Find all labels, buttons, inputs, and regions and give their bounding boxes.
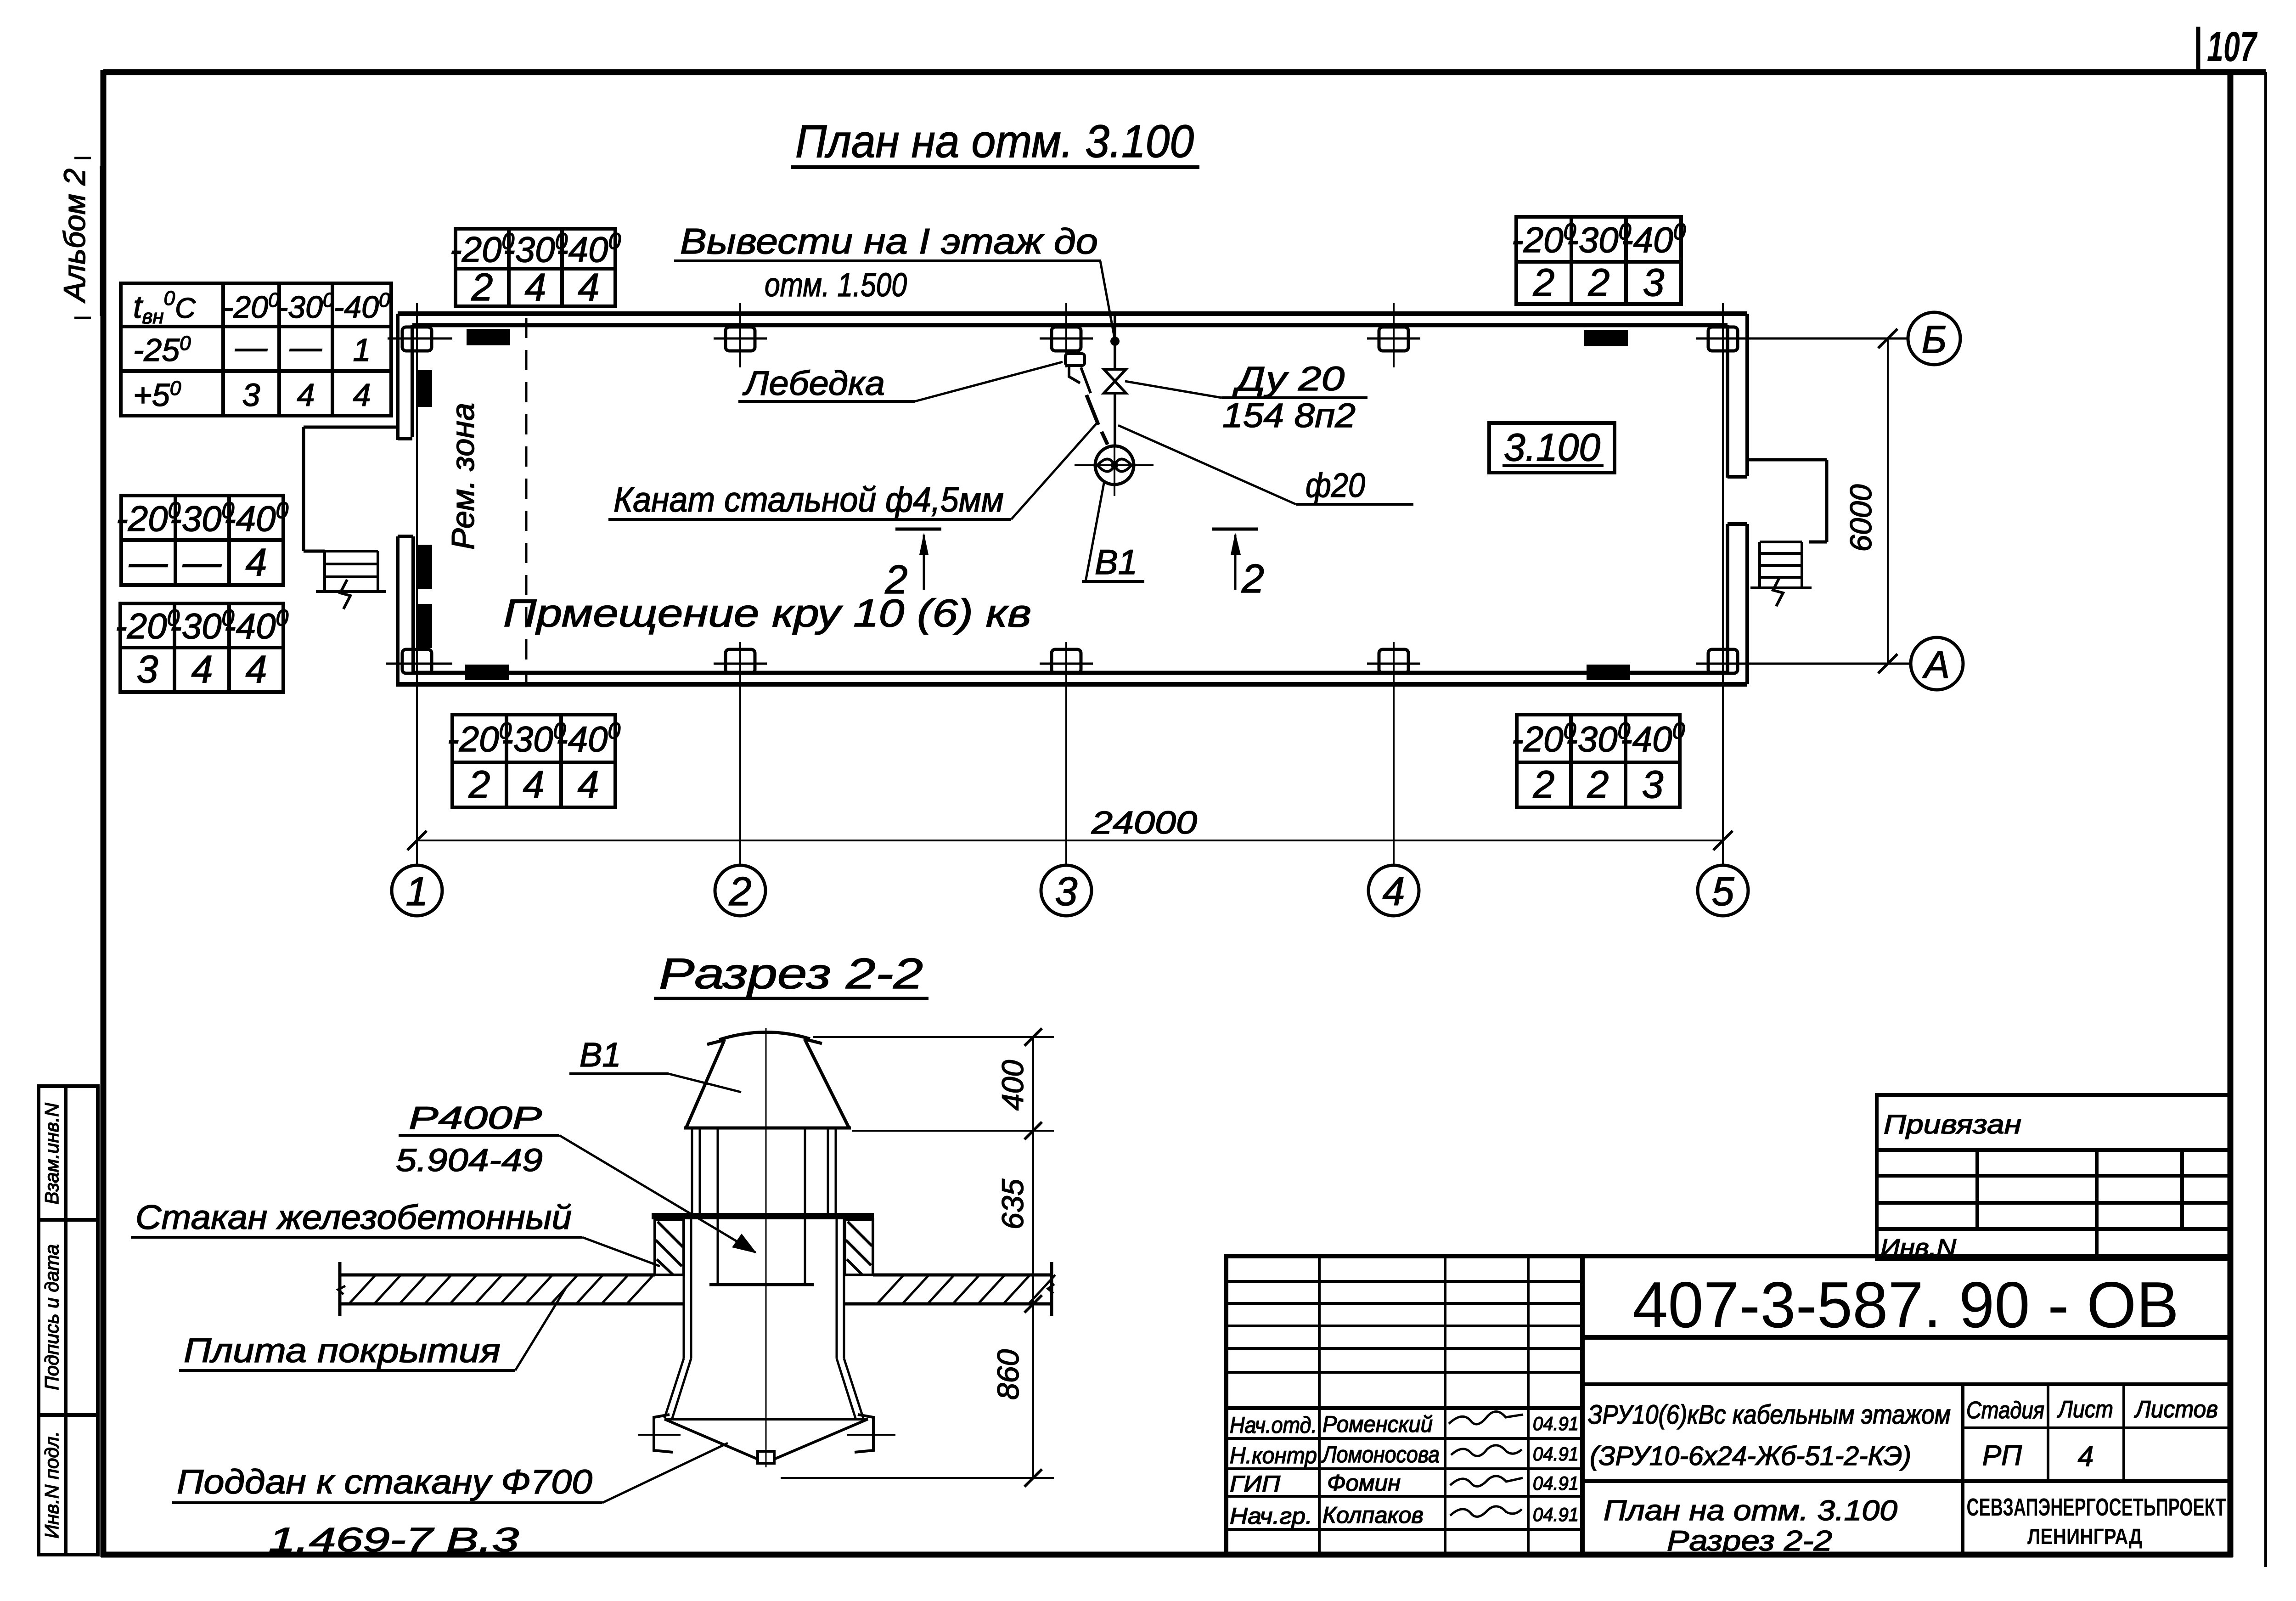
svg-text:(ЗРУ10-6х24-Жб-51-2-КЭ): (ЗРУ10-6х24-Жб-51-2-КЭ) <box>1590 1441 1911 1471</box>
svg-text:Фомин: Фомин <box>1327 1470 1401 1496</box>
svg-text:Ду 20: Ду 20 <box>1232 360 1345 398</box>
svg-text:2: 2 <box>1533 763 1555 806</box>
svg-text:—: — <box>289 329 322 365</box>
svg-text:отм. 1.500: отм. 1.500 <box>765 267 907 304</box>
svg-text:2: 2 <box>1241 556 1264 601</box>
svg-text:4: 4 <box>523 763 545 806</box>
svg-text:04.91: 04.91 <box>1533 1472 1579 1494</box>
signatures (scribbles) <box>1449 1411 1523 1516</box>
left margin strip boxes <box>39 1086 98 1555</box>
slab hatch <box>349 1275 1055 1304</box>
svg-text:Р400Р: Р400Р <box>409 1100 542 1136</box>
svg-text:4: 4 <box>246 541 267 584</box>
plan: right end wall lower part <box>1728 524 1747 684</box>
svg-text:ЛЕНИНГРАД: ЛЕНИНГРАД <box>2027 1525 2142 1549</box>
svg-text:Инв.N подл.: Инв.N подл. <box>41 1431 62 1539</box>
leader to pipe <box>1118 425 1296 504</box>
plan: top wall <box>398 314 1747 325</box>
svg-text:2: 2 <box>1533 261 1555 304</box>
axis bubble 4 <box>1368 865 1419 916</box>
svg-text:ф20: ф20 <box>1306 466 1365 504</box>
table mid-left (-20/-30/-40 : - - 4) <box>121 496 283 585</box>
axis bubble 2 <box>715 865 765 916</box>
leader to cable <box>1011 423 1097 519</box>
svg-text:3: 3 <box>1642 763 1664 806</box>
blank band line <box>1582 1382 2230 1386</box>
svg-text:Альбом 2: Альбом 2 <box>57 169 91 304</box>
svg-text:План на отм. 3.100: План на отм. 3.100 <box>1604 1495 1897 1527</box>
svg-text:B1: B1 <box>1095 543 1137 582</box>
svg-text:Колпаков: Колпаков <box>1322 1502 1424 1528</box>
table bottom-left (-20/-30/-40 : 2 4 4) <box>452 715 615 807</box>
axis bubble 3 <box>1041 865 1092 916</box>
plan: bottom wall <box>396 673 1747 684</box>
svg-text:3.100: 3.100 <box>1504 426 1600 469</box>
section: concrete socket right (hatched) <box>845 1219 873 1275</box>
section: drain pan (Поддон) <box>664 1419 868 1463</box>
svg-text:План на отм. 3.100: План на отм. 3.100 <box>795 116 1194 167</box>
ventilation grille bottom-right (filled) <box>1587 665 1630 680</box>
winch (Лебедка) symbol <box>1065 354 1091 393</box>
ventilation grille left wall middle (filled) <box>417 545 432 589</box>
svg-text:4: 4 <box>191 648 213 691</box>
svg-text:Вывести на I этаж до: Вывести на I этаж до <box>680 221 1098 261</box>
column axis 4/Б <box>1393 303 1395 367</box>
ventilation grille top-right (filled) <box>1584 330 1628 346</box>
axis 5 line <box>1722 685 1724 865</box>
svg-text:860: 860 <box>991 1349 1025 1400</box>
annex box "Привязан" <box>1877 1095 2230 1259</box>
pipe below valve <box>1114 393 1116 446</box>
svg-text:Поддан к стакану Ф700: Поддан к стакану Ф700 <box>177 1463 592 1501</box>
svg-text:4: 4 <box>578 763 599 806</box>
section: roof slab (hatched band) <box>340 1262 1052 1316</box>
dimension line 6000 <box>1887 338 1889 664</box>
axis 3 line <box>1065 685 1067 865</box>
svg-text:—: — <box>235 329 268 365</box>
svg-text:3: 3 <box>242 377 260 413</box>
svg-text:Нач.отд.: Нач.отд. <box>1230 1412 1317 1438</box>
column axis 3/Б <box>1065 303 1067 367</box>
svg-text:1: 1 <box>353 332 371 368</box>
section cut mark 2 (right) <box>1212 529 1258 590</box>
svg-text:Нач.гр.: Нач.гр. <box>1230 1503 1312 1529</box>
svg-text:Прмещение кру 10 (6) кв: Прмещение кру 10 (6) кв <box>503 592 1031 635</box>
axis bubble 1 <box>392 865 442 916</box>
svg-text:2: 2 <box>1588 261 1610 304</box>
table top-right (-20/-30/-40 : 2 2 3) <box>1516 217 1681 304</box>
big document number cell <box>1582 1335 2230 1340</box>
svg-text:Роменский: Роменский <box>1322 1411 1433 1437</box>
svg-text:Рем. зона: Рем. зона <box>445 403 481 550</box>
column axis 1/Б <box>416 303 418 367</box>
svg-text:4: 4 <box>353 377 371 413</box>
svg-text:04.91: 04.91 <box>1533 1504 1579 1525</box>
ventilation grille bottom-left (filled) <box>465 665 509 680</box>
svg-text:2: 2 <box>471 265 493 309</box>
svg-text:Разрез 2-2: Разрез 2-2 <box>659 949 923 998</box>
svg-text:Лебедка: Лебедка <box>743 364 885 402</box>
axis 4 line <box>1393 685 1395 865</box>
column axis 2/Б <box>739 303 741 367</box>
column axis 3/А <box>1065 642 1067 710</box>
svg-text:3: 3 <box>137 648 158 691</box>
fan B1 symbol <box>1095 446 1134 485</box>
section: concrete socket left (hatched) <box>655 1219 684 1275</box>
axis 5 full line <box>1722 367 1724 642</box>
svg-text:—: — <box>182 541 222 584</box>
leader to valve <box>1125 381 1221 398</box>
svg-text:А: А <box>1922 643 1950 686</box>
svg-text:Лист: Лист <box>2057 1396 2113 1423</box>
svg-text:ЗРУ10(6)кВс кабельным этажом: ЗРУ10(6)кВс кабельным этажом <box>1588 1400 1951 1430</box>
svg-text:Привязан: Привязан <box>1884 1110 2021 1139</box>
axis bubble 5 <box>1698 865 1748 916</box>
svg-text:107: 107 <box>2207 23 2258 70</box>
svg-text:3: 3 <box>1643 261 1665 304</box>
column axis 5/А <box>1722 642 1724 710</box>
svg-text:6000: 6000 <box>1844 484 1878 552</box>
axis 1 full line <box>416 367 418 642</box>
table tвн°C with rows -25 and +5 <box>121 283 391 416</box>
column axis 1/А <box>416 642 418 710</box>
svg-text:2: 2 <box>729 868 752 914</box>
plan: left vestibule <box>304 427 398 551</box>
column axis 5/Б <box>1722 303 1724 367</box>
table top-left (-20/-30/-40 : 2 4 4) <box>456 229 615 306</box>
axis line А to circle <box>1750 663 1911 665</box>
pipe junction dot <box>1110 337 1120 346</box>
axis line Б to circle <box>1730 338 1908 340</box>
section: dimension chain right <box>781 1037 1054 1478</box>
svg-text:04.91: 04.91 <box>1533 1413 1579 1434</box>
svg-text:407-3-587. 90 - ОВ: 407-3-587. 90 - ОВ <box>1632 1268 2179 1342</box>
description cell <box>1961 1384 1964 1555</box>
valve Ду20 <box>1104 369 1126 393</box>
section: deflector cap of fan B1 <box>684 1032 851 1128</box>
section: inner duct below flange <box>709 1219 814 1285</box>
section: vertical centerline <box>765 1028 767 1467</box>
svg-text:2: 2 <box>1587 763 1609 806</box>
elevation box 3.100 <box>1489 423 1615 473</box>
axis 1 line <box>416 685 418 865</box>
table bottom-right (-20/-30/-40 : 2 2 3) <box>1517 715 1680 807</box>
section: foot bracket left <box>654 1415 673 1452</box>
section cut mark 2 (left) <box>895 529 941 590</box>
svg-text:СЕВЗАПЭНЕРГОСЕТЬПРОЕКТ: СЕВЗАПЭНЕРГОСЕТЬПРОЕКТ <box>1967 1494 2226 1521</box>
section: lower casing flare <box>664 1359 863 1418</box>
svg-text:4: 4 <box>297 377 315 413</box>
svg-text:1: 1 <box>406 868 428 914</box>
svg-text:4: 4 <box>2078 1441 2093 1472</box>
svg-text:Подпись и дата: Подпись и дата <box>41 1244 62 1390</box>
riser pipe <box>1114 315 1116 369</box>
svg-text:Стадия: Стадия <box>1966 1397 2044 1424</box>
axis А extension at axis1 <box>386 663 452 665</box>
plan: right vestibule <box>1747 460 1827 542</box>
ventilation grille left wall lower (filled) <box>417 604 432 648</box>
svg-text:04.91: 04.91 <box>1533 1443 1579 1465</box>
svg-text:3: 3 <box>1055 868 1078 914</box>
title block left table <box>1226 1256 1582 1555</box>
svg-text:154 8п2: 154 8п2 <box>1222 396 1356 434</box>
Стадия/Лист/Листов columns <box>1963 1384 2230 1481</box>
leader to riser <box>1100 261 1115 340</box>
svg-text:Н.контр: Н.контр <box>1230 1443 1317 1468</box>
table mid-left lower (-20/-30/-40 : 3 4 4) <box>120 603 283 692</box>
ventilation grille left wall upper (filled) <box>417 370 432 407</box>
svg-text:Б: Б <box>1922 318 1947 361</box>
svg-text:Листов: Листов <box>2134 1396 2218 1423</box>
plan: left end wall upper part <box>398 314 412 440</box>
axis Б extension at axis1 <box>388 338 452 340</box>
plan: left end wall lower part <box>398 536 413 684</box>
sheet edge line right <box>2264 72 2267 1567</box>
svg-text:Плита покрытия: Плита покрытия <box>184 1331 501 1370</box>
svg-text:5: 5 <box>1712 868 1735 914</box>
svg-text:B1: B1 <box>580 1036 621 1074</box>
svg-text:1.469-7 В.3: 1.469-7 В.3 <box>269 1521 519 1559</box>
section: casing through slab <box>684 1219 844 1359</box>
leader to winch <box>915 362 1063 401</box>
svg-text:Стакан железобетонный: Стакан железобетонный <box>135 1198 572 1236</box>
ventilation grille top-left (filled) <box>467 329 510 345</box>
svg-text:4: 4 <box>1383 868 1405 914</box>
svg-text:4: 4 <box>578 265 600 309</box>
svg-text:4: 4 <box>525 265 546 309</box>
cable dash strokes winch to fan <box>1086 395 1098 425</box>
page number tick <box>2196 27 2200 72</box>
title block outline <box>1226 1256 2230 1555</box>
column axis 4/А <box>1393 642 1395 710</box>
slab break marks <box>338 1286 345 1294</box>
axis circle Б <box>1908 312 1960 365</box>
svg-text:400: 400 <box>996 1060 1030 1111</box>
svg-text:5.904-49: 5.904-49 <box>396 1142 543 1178</box>
dashed partition line (Рем. зона) <box>525 318 528 683</box>
plan: right end wall upper part <box>1728 314 1747 478</box>
axis 2 line <box>739 685 741 865</box>
svg-text:РП: РП <box>1982 1440 2022 1471</box>
svg-text:2: 2 <box>885 557 908 602</box>
svg-text:ГИП: ГИП <box>1230 1471 1281 1497</box>
svg-text:Ломоносова: Ломоносова <box>1321 1442 1440 1467</box>
dimension line 24000 <box>417 840 1723 841</box>
svg-text:Взам.инв.N: Взам.инв.N <box>41 1103 62 1205</box>
plan: right entrance stairs <box>1750 542 1812 606</box>
section: mounting flange (filled) <box>652 1213 874 1219</box>
svg-text:Разрез 2-2: Разрез 2-2 <box>1667 1525 1832 1557</box>
column axis 2/А <box>739 642 741 710</box>
svg-text:—: — <box>129 541 168 584</box>
svg-text:Канат стальной ф4,5мм: Канат стальной ф4,5мм <box>613 480 1004 519</box>
svg-text:24000: 24000 <box>1091 805 1197 840</box>
axis circle А <box>1911 637 1963 690</box>
plan: left entrance stairs <box>316 551 386 609</box>
svg-text:2: 2 <box>468 763 490 806</box>
section: foot bracket right <box>855 1415 873 1452</box>
section: fan neck <box>692 1128 836 1213</box>
svg-text:635: 635 <box>996 1179 1030 1229</box>
svg-text:4: 4 <box>246 648 267 691</box>
